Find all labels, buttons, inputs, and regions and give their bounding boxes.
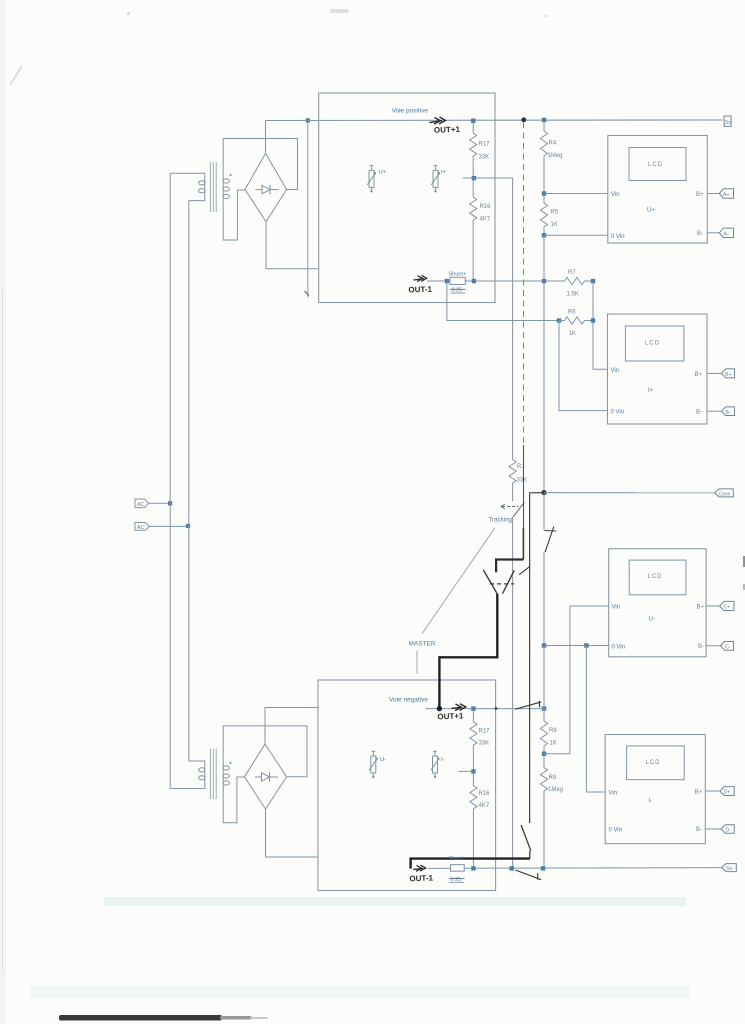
node R16 bottom junction: [472, 279, 476, 283]
trimmer I-: [431, 751, 439, 777]
node R6 right on x=593: [591, 318, 595, 322]
OUT-1 arrow (top): [414, 275, 427, 281]
node Conn junction (dark): [541, 490, 546, 495]
switch blade on OUT+1 neg row: [515, 702, 541, 709]
resistor R8: [540, 721, 547, 754]
wire B+ to connector B+: [707, 372, 722, 374]
wire OUT+1 neg row: [426, 708, 544, 710]
wire secondary top T2 to bridge right: [223, 726, 307, 777]
wire B- to connector D-: [705, 828, 721, 830]
svg-text:LCD: LCD: [648, 574, 663, 580]
wire AC2 to bus: [150, 525, 189, 527]
wire bridge minus down and right to box: [266, 222, 319, 269]
svg-text:1K: 1K: [569, 331, 576, 337]
node top bus / R4: [542, 118, 546, 122]
svg-text:A-: A-: [724, 231, 729, 237]
svg-text:I-: I-: [441, 757, 445, 763]
svg-text:Shunt-: Shunt-: [449, 856, 465, 862]
node R4/R5: [542, 191, 546, 195]
bridge diamond: [245, 153, 287, 221]
wire B+ to connector C+: [706, 605, 720, 607]
svg-text:33K: 33K: [479, 741, 490, 747]
wire thick MASTER link down-left to OUT+1: [439, 594, 497, 709]
wire bridge plus riser T2 to box: [265, 708, 318, 745]
block Voie negative box: [318, 680, 496, 891]
node R9 bottom on row: [541, 866, 545, 870]
node R16n bottom: [471, 866, 475, 870]
LCD U+ display: [629, 148, 686, 181]
svg-text:A+: A+: [723, 192, 730, 198]
wire AC bus 1 (left vertical): [169, 173, 171, 788]
svg-text:So: So: [725, 120, 731, 126]
node R17 top junction: [471, 119, 475, 123]
wire B- to connector A-: [707, 232, 719, 234]
svg-text:R1: R1: [517, 464, 525, 470]
connector C+: [720, 601, 734, 610]
svg-text:MASTER: MASTER: [409, 641, 436, 648]
diode symbol inside bridge D2: [255, 772, 278, 782]
trimmer I+: [431, 165, 439, 191]
svg-text:B+: B+: [695, 372, 703, 378]
svg-text:C+: C+: [724, 605, 731, 611]
wire x=570 riser: [569, 606, 571, 754]
svg-text:AC: AC: [137, 502, 145, 508]
resistor R17: [470, 123, 477, 178]
resistor R7: [546, 277, 593, 284]
wire to Vin U+: [544, 193, 608, 195]
block LCD I+ box: [608, 314, 708, 424]
trimmer U-: [369, 751, 377, 777]
block LCD I- box: [605, 735, 705, 844]
svg-text:0 Vin: 0 Vin: [609, 828, 623, 834]
node AC1 junction: [168, 501, 172, 505]
wire tap to x=512 corner: [474, 177, 513, 179]
connector A+: [719, 189, 733, 198]
svg-text:R7: R7: [568, 270, 576, 276]
wire B- to connector C-: [706, 645, 722, 647]
wire secondary bottom jog to bridge left: [223, 190, 245, 240]
diode symbol inside bridge: [256, 185, 279, 195]
svg-text:LCD: LCD: [648, 162, 663, 168]
node R8/R9 junction: [542, 752, 546, 756]
wire tap stub left (neg): [459, 770, 474, 772]
block LCD U+ box: [608, 136, 708, 244]
svg-text:D-: D-: [726, 828, 732, 834]
node pencil junction on top bus: [521, 117, 526, 122]
svg-text:C-: C-: [725, 644, 731, 650]
connector B+: [722, 369, 735, 378]
svg-text:LCD: LCD: [645, 341, 660, 347]
node shunt row / bus: [542, 279, 546, 283]
resistor R16: [470, 180, 477, 281]
wire B+ to connector A+: [707, 193, 719, 195]
OUT+1 arrow (top): [430, 117, 446, 124]
transformer T2 core: [210, 749, 216, 800]
wire branch from 0Vin U- down to Vin I-: [586, 646, 605, 793]
wire stub dangling at x=308: [307, 121, 309, 298]
wire secondary bottom T2 jog to bridge left: [223, 777, 244, 823]
leader MASTER to box: [416, 651, 418, 674]
wire OUT-1 neg row: [428, 867, 722, 870]
svg-text:1.5K: 1.5K: [567, 292, 579, 298]
node AC2 junction: [186, 524, 190, 528]
wire x=544 Conn to switch: [543, 493, 545, 530]
small pencil mark on OUT+1 row: [495, 707, 498, 710]
svg-text:1K: 1K: [551, 222, 558, 228]
transformer T1 core: [210, 162, 216, 212]
connector AC (upper): [135, 499, 149, 508]
tracking dashed arrow: [501, 504, 519, 509]
node R17n top: [471, 706, 475, 710]
connector So (top right): [724, 116, 731, 126]
wire AC1 to bus: [149, 502, 171, 504]
resistor R17 (neg): [470, 711, 477, 772]
svg-text:R6: R6: [568, 310, 576, 316]
svg-text:Voie positive: Voie positive: [392, 108, 429, 115]
svg-text:B-: B-: [726, 410, 731, 416]
resistor R5: [540, 196, 547, 236]
wire primary bottom lead T2: [170, 784, 205, 789]
svg-text:U+: U+: [647, 208, 655, 214]
wire 0Vin U- row: [544, 645, 609, 647]
wire bus to R8: [543, 646, 545, 722]
trimmer U+: [367, 165, 375, 191]
node R7 right: [591, 279, 595, 283]
wire pencil stub to thick link: [529, 851, 531, 859]
connector A-: [719, 228, 733, 237]
node x=512 on bottom row: [510, 866, 514, 870]
wire R6 left down to 0Vin I+: [559, 321, 608, 411]
svg-text:B+: B+: [725, 372, 732, 378]
connector C-: [721, 642, 734, 651]
LCD I- display: [627, 746, 685, 780]
svg-text:R16: R16: [480, 204, 492, 210]
svg-text:R9: R9: [549, 775, 557, 781]
svg-text:OUT-1: OUT-1: [409, 873, 433, 883]
svg-text:Vin: Vin: [611, 368, 620, 374]
svg-text:Vin: Vin: [611, 192, 620, 198]
wire top bus y=120: [266, 119, 723, 122]
switch gang dashed link: [490, 583, 514, 585]
wire tap stub left: [463, 177, 474, 179]
wire Conn to connector: [544, 492, 715, 494]
wire x=544 switch to 0Vin U- row: [543, 552, 545, 646]
svg-text:Shunt+: Shunt+: [449, 272, 467, 278]
connector Conn: [715, 489, 734, 497]
svg-text:U-: U-: [380, 757, 386, 763]
node branch to I- Vin: [584, 643, 588, 647]
switch blade lower (open knife): [521, 825, 531, 851]
wire pencil x=523.5 lower solid: [522, 528, 524, 560]
wire B+ to connector D+: [705, 790, 720, 792]
switch funnel left blade: [483, 570, 497, 594]
transformer T2 secondary winding: [223, 763, 229, 787]
LCD U- display: [629, 560, 686, 595]
svg-text:B-: B-: [696, 410, 702, 416]
svg-text:So: So: [726, 866, 732, 872]
svg-text:33K: 33K: [479, 155, 490, 161]
connector AC (lower): [135, 523, 150, 531]
wire x=512.6 below switch down to bottom bus: [512, 517, 514, 869]
node tap (neg): [471, 769, 475, 773]
svg-text:B+: B+: [697, 605, 705, 611]
svg-text:Vin: Vin: [612, 605, 621, 611]
connector So (bottom right): [722, 864, 737, 872]
wire R7 right down to Vin I+: [593, 281, 608, 369]
node R6 left: [557, 318, 561, 322]
svg-text:0 Vin: 0 Vin: [611, 234, 625, 240]
switch on x=544 line: blade: [545, 527, 554, 553]
bridge diamond D2: [244, 744, 286, 809]
svg-text:Vin: Vin: [609, 791, 618, 797]
wire x=512.6 from tap down to R1: [512, 178, 514, 458]
wire primary top lead T2: [189, 761, 205, 766]
polarity dot T1: [230, 174, 232, 176]
switch tick on OUT-1 neg row: [537, 873, 539, 879]
wire pencil x=523.5 down (dashed look): [523, 122, 525, 445]
svg-text:D+: D+: [724, 790, 731, 796]
scan specks: [330, 9, 349, 13]
svg-text:R17: R17: [479, 142, 491, 148]
connector D-: [721, 825, 734, 834]
wire R1 bottom to tracking switch: [512, 484, 514, 501]
svg-text:I+: I+: [441, 170, 447, 176]
leader diagonal Tracking-MASTER: [422, 528, 495, 634]
wire B- to connector B-: [707, 410, 722, 412]
svg-text:B+: B+: [696, 192, 704, 198]
wire to 0Vin U+: [544, 234, 608, 236]
wire Vin U- from x=570 riser: [570, 605, 609, 607]
shunt- body: [451, 865, 465, 872]
svg-text:R17: R17: [479, 729, 491, 735]
wire bridge minus down and right to box T2: [266, 809, 319, 857]
wire thick link to OUT-1: [411, 859, 530, 869]
OUT-1 arrow (bottom): [413, 865, 426, 871]
node R17/R16 tap: [472, 176, 476, 180]
svg-text:B-: B-: [696, 827, 702, 833]
svg-text:B-: B-: [697, 231, 703, 237]
wire secondary top to bridge right: [223, 139, 297, 190]
wire thick elbow to switch top contact: [496, 560, 523, 573]
switch on x=544 line: tick: [544, 530, 556, 533]
block LCD U- box: [609, 549, 706, 657]
node OUT+1 neg / bus: [542, 706, 546, 710]
svg-text:B-: B-: [698, 644, 704, 650]
svg-text:1Meg: 1Meg: [548, 153, 563, 159]
wire AC bus 2 (right vertical): [188, 201, 190, 761]
svg-text:AC: AC: [137, 525, 145, 531]
wire shunt row y=281: [427, 280, 544, 282]
wire primary bottom lead: [189, 197, 205, 201]
svg-text:U+: U+: [379, 170, 387, 176]
LCD I+ display: [625, 326, 684, 361]
svg-text:0 Vin: 0 Vin: [612, 644, 626, 650]
node MASTER link on OUT+1 (dark): [437, 706, 442, 711]
node R5 bottom: [542, 233, 546, 237]
OUT+1 arrow (bottom): [452, 704, 466, 711]
svg-text:1Meg: 1Meg: [548, 787, 563, 793]
wire bus x=544 down to Conn node: [543, 235, 545, 492]
svg-text:R16: R16: [479, 791, 491, 797]
svg-text:4K7: 4K7: [479, 803, 490, 809]
connector D+: [720, 787, 734, 796]
svg-text:R4: R4: [549, 141, 557, 147]
svg-text:Conn: Conn: [719, 491, 731, 497]
svg-text:I+: I+: [648, 388, 654, 394]
node shunt left junction: [445, 279, 449, 283]
resistor R4: [540, 120, 547, 194]
resistor R1: [509, 458, 516, 484]
polarity dot T2: [230, 762, 232, 764]
scan cyan band upper: [104, 897, 686, 906]
switch tick on OUT+1 neg row: [538, 701, 540, 708]
switch funnel right blade: [503, 570, 515, 593]
svg-text:U-: U-: [649, 617, 655, 623]
svg-text:OUT+1: OUT+1: [434, 125, 461, 135]
transformer T1 secondary winding: [223, 175, 229, 200]
svg-text:Voie négative: Voie négative: [389, 697, 428, 704]
shunt+ body: [450, 277, 465, 284]
svg-text:Tracking: Tracking: [489, 517, 513, 524]
svg-text:OUT-1: OUT-1: [408, 285, 432, 295]
wire primary top lead: [170, 173, 205, 178]
svg-text:1K: 1K: [550, 741, 557, 747]
wire pencil x=529.6 from Conn node down: [530, 493, 544, 823]
svg-text:0 Vin: 0 Vin: [611, 409, 625, 415]
svg-text:B+: B+: [695, 790, 703, 796]
svg-text:LCD: LCD: [646, 760, 661, 766]
resistor R6: [559, 317, 593, 324]
svg-text:4K7: 4K7: [480, 217, 491, 223]
svg-text:33K: 33K: [517, 478, 528, 484]
node 0Vin U- / bus: [542, 643, 546, 647]
wire bridge plus riser to top bus: [265, 121, 267, 154]
wire R6 feed: down from shunt-left then right: [447, 281, 559, 321]
switch blade on OUT-1 neg row: [515, 870, 541, 880]
svg-text:OUT+1: OUT+1: [437, 711, 464, 721]
tracking switch blade: [513, 502, 524, 517]
scan dark mark bottom: [59, 1015, 222, 1021]
connector B-: [722, 407, 735, 416]
node junction on top bus at x=308: [306, 118, 310, 122]
resistor R9: [540, 754, 547, 869]
svg-text:R8: R8: [549, 728, 557, 734]
scan cyan band lower: [30, 986, 690, 999]
switch small blade near x=523: [519, 566, 530, 574]
svg-text:I-: I-: [649, 799, 653, 805]
block Voie positive box: [319, 93, 495, 303]
resistor R16 (neg): [470, 774, 477, 869]
svg-text:R5: R5: [551, 210, 559, 216]
transformer T2 primary winding: [199, 766, 205, 785]
transformer T1 primary winding: [199, 179, 205, 197]
wire junction right to x=570 riser: [544, 753, 570, 755]
